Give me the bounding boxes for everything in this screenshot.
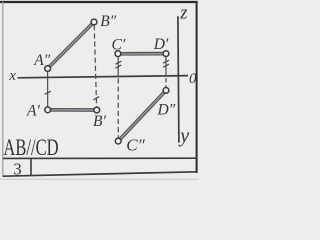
node C' <box>115 51 121 57</box>
node A'' <box>45 66 51 72</box>
z/y axis <box>178 16 179 142</box>
svg-text:D′: D′ <box>153 36 169 53</box>
svg-text:C″: C″ <box>126 136 145 155</box>
table cell divider <box>30 158 32 175</box>
tick on A connector <box>45 91 51 94</box>
bottom table line 1 <box>3 157 197 159</box>
node D'' <box>163 88 169 94</box>
node A' <box>45 107 51 113</box>
connector C lower (dashed) <box>117 78 119 137</box>
segment C'D' <box>118 52 166 56</box>
double tick 1 on C connector <box>115 61 121 64</box>
paper background <box>0 0 199 180</box>
svg-text:y: y <box>178 125 189 147</box>
segment C''D'' <box>118 90 166 141</box>
node D' <box>163 51 169 57</box>
svg-text:AB//CD: AB//CD <box>3 135 58 160</box>
double tick 2 on C connector <box>115 65 121 68</box>
node B'' <box>91 19 97 25</box>
x axis <box>18 76 188 78</box>
top frame line <box>0 1 198 3</box>
double tick 1 on D connector <box>163 60 169 63</box>
svg-text:x: x <box>8 68 16 84</box>
svg-text:C′: C′ <box>112 37 126 54</box>
tick on B connector <box>93 97 99 100</box>
left frame line <box>2 2 4 177</box>
svg-text:B″: B″ <box>100 13 116 30</box>
segment A''B'' <box>48 22 94 69</box>
connector C upper (solid) <box>117 57 119 77</box>
svg-text:D″: D″ <box>157 102 176 119</box>
svg-text:A″: A″ <box>33 52 50 69</box>
svg-text:B′: B′ <box>93 113 106 130</box>
node B' <box>94 107 100 113</box>
bottom table line 2 <box>3 172 197 176</box>
bottom edge shadow <box>0 178 199 180</box>
connector B (dashed) <box>94 25 96 107</box>
connector A (solid) <box>47 72 49 107</box>
connector D lower (dashed) <box>165 78 167 87</box>
node C'' <box>115 138 121 144</box>
svg-text:0: 0 <box>189 71 197 87</box>
svg-text:3: 3 <box>13 160 22 179</box>
double tick 2 on D connector <box>163 64 169 67</box>
segment A'B' <box>48 108 97 112</box>
connector D upper (solid) <box>165 57 167 77</box>
right frame line <box>196 1 198 173</box>
svg-text:z: z <box>179 4 187 24</box>
svg-text:A′: A′ <box>26 103 40 120</box>
